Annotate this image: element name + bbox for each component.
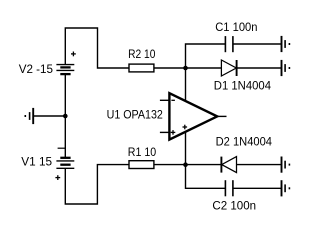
svg-text:V1 15: V1 15: [21, 154, 52, 168]
svg-text:R1 10: R1 10: [128, 145, 157, 159]
svg-text:U1 OPA132: U1 OPA132: [107, 108, 164, 122]
svg-text:V2 -15: V2 -15: [19, 62, 54, 76]
svg-text:D2 1N4004: D2 1N4004: [216, 134, 273, 148]
svg-text:R2 10: R2 10: [128, 47, 156, 61]
svg-text:C1 100n: C1 100n: [215, 20, 257, 34]
svg-text:D1 1N4004: D1 1N4004: [214, 79, 271, 93]
svg-text:C2 100n: C2 100n: [212, 199, 256, 213]
